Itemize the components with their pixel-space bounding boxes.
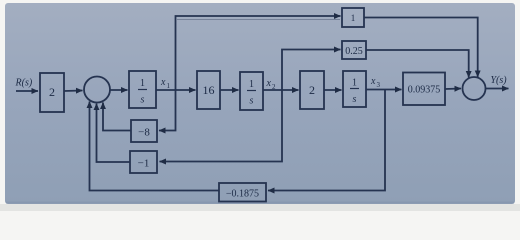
wire: block -8 to summing junction S1 (up into bottom) <box>103 103 131 131</box>
wire: summing junction S2 to Y(s) output <box>486 88 509 90</box>
block feedback gain -1 <box>130 151 157 173</box>
wire: block -0.1875 to summing junction S1 (up into bottom) <box>90 102 220 191</box>
svg-text:−0.1875: −0.1875 <box>226 189 259 200</box>
block integrator 1/s #1 <box>129 71 156 108</box>
wire: integrator #1 output through node x1 to block 16 <box>156 89 196 91</box>
svg-text:s: s <box>250 96 254 107</box>
svg-text:1: 1 <box>352 78 357 89</box>
node x2 label <box>266 78 277 91</box>
svg-text:−8: −8 <box>138 127 150 139</box>
svg-text:2: 2 <box>309 83 315 97</box>
svg-text:s: s <box>353 94 357 105</box>
block feedback gain -8 <box>131 120 157 142</box>
block G0 gain 2 <box>40 73 64 112</box>
block integrator 1/s #3 <box>343 71 366 107</box>
svg-text:Y(s): Y(s) <box>491 75 508 86</box>
block feedforward gain 1 <box>342 8 364 27</box>
svg-text:1: 1 <box>140 78 145 89</box>
wire: node x1 down to feedback block -8 <box>159 90 176 131</box>
svg-text:−1: −1 <box>138 158 150 170</box>
summing junction S2 <box>463 77 486 100</box>
svg-text:s: s <box>141 95 145 106</box>
svg-text:2: 2 <box>49 85 55 99</box>
wire: block 0.09375 to summing junction S2 <box>445 88 461 91</box>
wire: block 1 to summing junction S2 (down into top) <box>364 18 478 78</box>
block integrator 1/s #2 <box>240 72 263 110</box>
wire: node x2 down to feedback block -1 <box>160 90 283 162</box>
node x1 label <box>160 77 171 90</box>
svg-text:1: 1 <box>249 79 254 90</box>
wire: block -1 to summing junction S1 (up into bottom) <box>97 104 131 163</box>
wire: gain 2 to integrator 1/s #3 <box>324 89 342 91</box>
wire: node x3 down to feedback block -0.1875 <box>268 90 385 191</box>
svg-text:0.09375: 0.09375 <box>408 85 441 96</box>
block feedback gain -0.1875 <box>219 183 266 202</box>
summing junction S1 <box>84 77 110 103</box>
svg-text:3: 3 <box>377 81 381 89</box>
wire: block 16 to integrator 1/s #2 <box>220 89 239 91</box>
wire: node x2 up to feedforward block 0.25 <box>282 50 341 91</box>
wire: block 0.25 to summing junction S2 (down into top) <box>366 50 469 78</box>
svg-text:1: 1 <box>167 82 171 90</box>
block gain 2 (second) <box>300 71 324 109</box>
svg-text:x: x <box>266 78 272 89</box>
svg-text:0.25: 0.25 <box>345 46 363 57</box>
wire: summing junction S1 to integrator 1/s #1 <box>110 89 128 91</box>
node R(s) input label <box>15 78 33 89</box>
svg-text:x: x <box>160 77 166 88</box>
wire: R(s) input to block 2 <box>16 90 38 92</box>
svg-text:1: 1 <box>351 13 356 23</box>
block gain 16 <box>197 71 220 109</box>
block feedforward gain 0.25 <box>342 41 366 59</box>
svg-text:R(s): R(s) <box>15 78 33 89</box>
svg-text:16: 16 <box>203 83 215 97</box>
node x3 label <box>370 76 381 89</box>
wire: integrator #3 output through node x3 to block 0.09375 <box>366 89 402 91</box>
svg-text:x: x <box>370 76 376 87</box>
wire: node x1 up to feedforward block 1 <box>177 19 340 21</box>
wire: integrator #2 output through node x2 to gain block 2 <box>263 89 299 91</box>
block gain 0.09375 <box>403 73 445 106</box>
node Y(s) output label <box>491 75 508 86</box>
wire: block 2 to summing junction S1 <box>64 90 83 93</box>
